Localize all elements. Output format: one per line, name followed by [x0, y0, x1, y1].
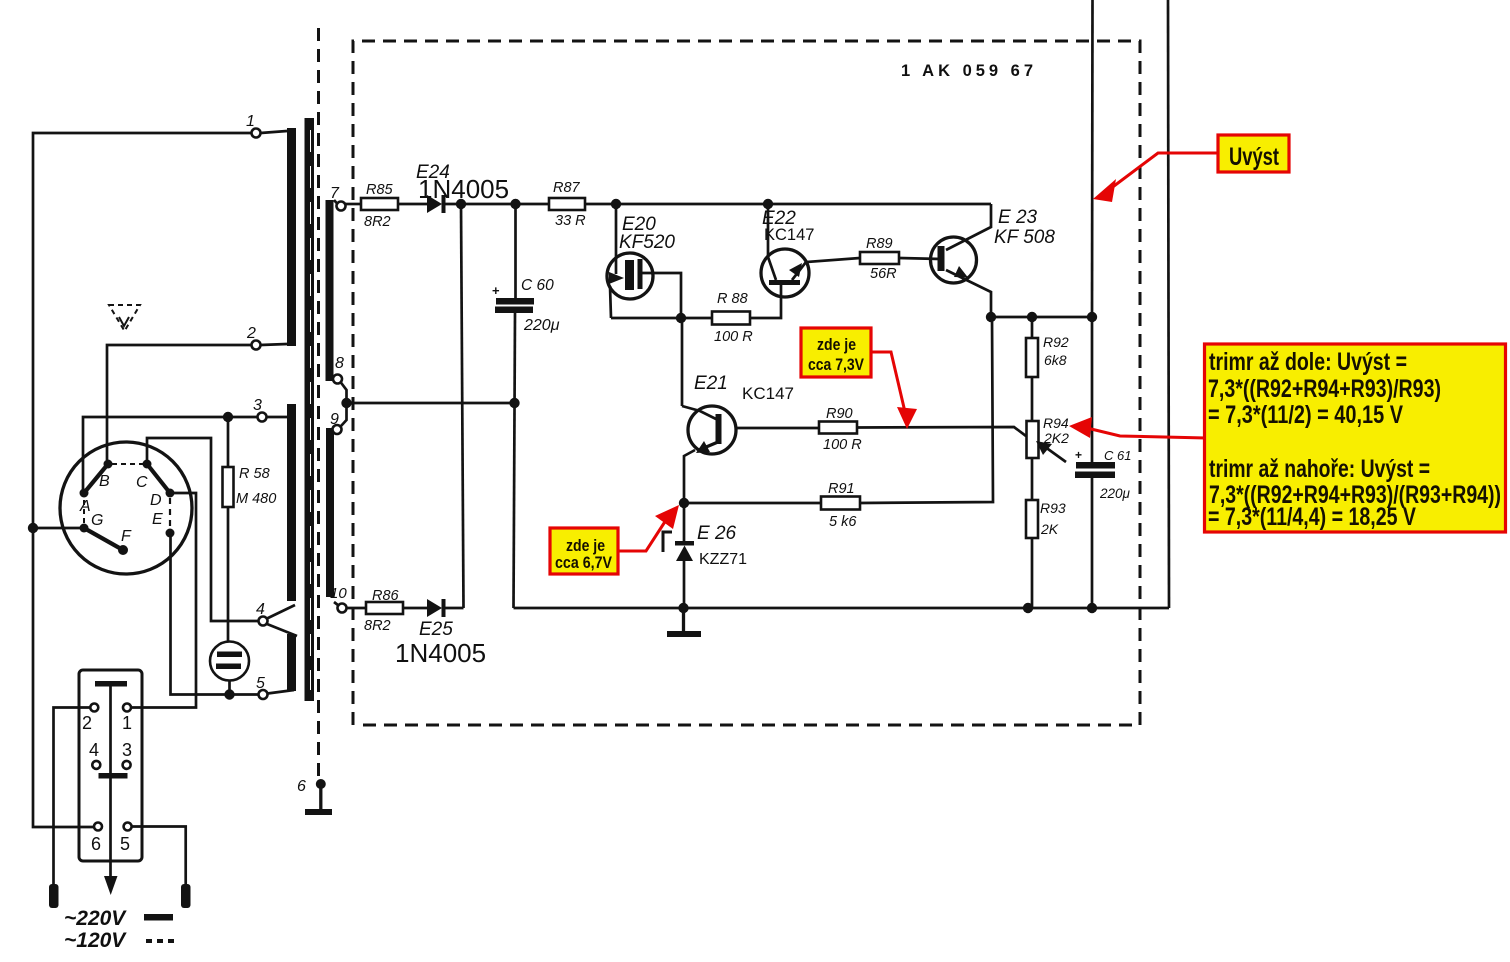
svg-text:1: 1 [122, 713, 132, 733]
svg-text:+: + [1075, 448, 1082, 462]
svg-text:C: C [136, 474, 148, 491]
svg-text:trimr až nahoře: Uvýst =: trimr až nahoře: Uvýst = [1209, 455, 1430, 483]
svg-text:C 60: C 60 [521, 277, 554, 294]
svg-text:KF 508: KF 508 [994, 227, 1055, 248]
svg-text:D: D [150, 492, 162, 509]
svg-text:1 AK 059 67: 1 AK 059 67 [901, 62, 1037, 80]
svg-text:R92: R92 [1043, 334, 1069, 350]
svg-text:R 58: R 58 [239, 466, 270, 482]
svg-text:8R2: 8R2 [364, 618, 391, 634]
svg-text:2: 2 [82, 713, 92, 733]
svg-text:M 480: M 480 [236, 491, 276, 507]
svg-text:~220V: ~220V [64, 907, 127, 930]
svg-text:KC147: KC147 [742, 384, 794, 403]
svg-text:R89: R89 [866, 236, 893, 252]
svg-text:E25: E25 [419, 619, 453, 640]
svg-text:5 k6: 5 k6 [829, 514, 857, 530]
svg-text:2K: 2K [1040, 521, 1059, 537]
svg-text:zde je: zde je [817, 336, 856, 354]
svg-text:100 R: 100 R [714, 329, 753, 345]
svg-text:7,3*((R92+R94+R93)/R93): 7,3*((R92+R94+R93)/R93) [1208, 375, 1441, 403]
svg-text:5: 5 [256, 675, 265, 692]
svg-text:R85: R85 [366, 182, 394, 198]
svg-text:= 7,3*(11/4,4) = 18,25 V: = 7,3*(11/4,4) = 18,25 V [1208, 503, 1416, 531]
svg-text:C 61: C 61 [1104, 448, 1131, 463]
svg-text:4: 4 [256, 601, 265, 618]
svg-text:R91: R91 [828, 481, 855, 497]
svg-text:3: 3 [122, 740, 132, 760]
svg-text:A: A [79, 498, 91, 515]
svg-text:~120V: ~120V [64, 929, 127, 952]
svg-text:8R2: 8R2 [364, 214, 391, 230]
svg-text:E21: E21 [694, 373, 728, 394]
svg-text:Uvýst: Uvýst [1229, 143, 1279, 171]
svg-text:6k8: 6k8 [1044, 352, 1067, 368]
svg-text:R87: R87 [553, 180, 581, 196]
svg-text:KC147: KC147 [764, 226, 814, 244]
svg-text:10: 10 [330, 585, 347, 602]
svg-text:2K2: 2K2 [1043, 430, 1069, 446]
svg-text:= 7,3*(11/2) = 40,15 V: = 7,3*(11/2) = 40,15 V [1208, 401, 1403, 429]
svg-text:KZZ71: KZZ71 [699, 551, 747, 568]
svg-text:220μ: 220μ [1099, 486, 1131, 501]
svg-text:220μ: 220μ [523, 317, 560, 334]
svg-text:zde je: zde je [566, 537, 605, 555]
svg-text:9: 9 [330, 411, 339, 428]
svg-text:1N4005: 1N4005 [418, 174, 509, 204]
svg-text:E 23: E 23 [998, 207, 1038, 228]
svg-text:F: F [121, 528, 132, 545]
svg-text:R93: R93 [1040, 500, 1066, 516]
svg-text:3: 3 [253, 397, 262, 414]
svg-text:R 88: R 88 [717, 291, 748, 307]
svg-text:33 R: 33 R [555, 213, 586, 229]
svg-text:E: E [152, 511, 163, 528]
svg-text:R90: R90 [826, 406, 853, 422]
svg-text:1N4005: 1N4005 [395, 638, 486, 668]
svg-text:2: 2 [246, 325, 256, 342]
svg-text:1: 1 [246, 113, 255, 130]
svg-text:G: G [91, 512, 103, 529]
svg-text:cca 6,7V: cca 6,7V [555, 554, 612, 572]
svg-text:6: 6 [91, 834, 101, 854]
svg-text:KF520: KF520 [619, 232, 675, 253]
svg-text:+: + [492, 283, 500, 298]
svg-text:100 R: 100 R [823, 437, 862, 453]
svg-text:B: B [99, 473, 110, 490]
svg-text:4: 4 [89, 740, 99, 760]
svg-text:cca 7,3V: cca 7,3V [808, 356, 864, 374]
svg-text:trimr až dole: Uvýst =: trimr až dole: Uvýst = [1209, 348, 1407, 376]
svg-text:7: 7 [330, 185, 340, 202]
svg-text:56R: 56R [870, 266, 897, 282]
svg-text:R86: R86 [372, 588, 400, 604]
svg-text:E 26: E 26 [697, 523, 737, 544]
svg-text:6: 6 [297, 778, 306, 795]
svg-text:5: 5 [120, 834, 130, 854]
svg-text:R94: R94 [1043, 415, 1069, 431]
svg-text:8: 8 [335, 355, 344, 372]
